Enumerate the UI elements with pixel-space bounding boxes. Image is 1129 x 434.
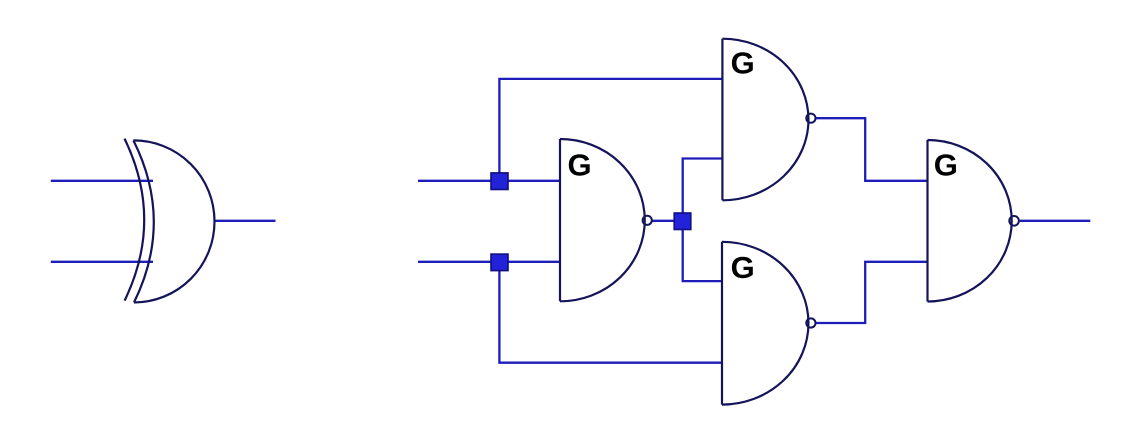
wire G2 output to NAND G4 input 1: [816, 118, 928, 181]
wire input B of XOR: [51, 261, 153, 263]
NAND gate G1 output bubble: [643, 216, 652, 225]
wire input A of XOR: [51, 180, 153, 182]
NAND gate G3 output bubble: [806, 318, 815, 327]
node C (junction square on G1 output): [674, 213, 691, 230]
node B (junction square on input 2): [491, 254, 508, 271]
wire G1 output to node C: [652, 220, 675, 222]
node A (junction square on input 1): [491, 173, 508, 190]
svg-text:G: G: [934, 147, 958, 182]
svg-text:G: G: [731, 46, 755, 81]
XOR gate U1 (left symbol): [125, 139, 215, 303]
NAND gate G4 body (right): [928, 140, 1012, 302]
wire node C down to NAND G3 input 1: [683, 221, 722, 281]
svg-text:G: G: [568, 148, 592, 183]
wire G3 output to NAND G4 input 2: [816, 262, 928, 323]
wire input 1 (top) to NAND G1: [418, 180, 560, 182]
wire output of G4: [1020, 220, 1091, 222]
NAND gate G1 body: [560, 139, 645, 301]
NAND gate G4 output bubble: [1009, 216, 1019, 226]
wire node C up to NAND G2 input 2: [683, 159, 723, 221]
wire from node A up and across to NAND G2 input 1: [499, 79, 722, 181]
NAND gate G3 body (bottom): [722, 242, 808, 405]
NAND gate G2 output bubble: [806, 114, 815, 123]
wire input 2 (bottom) to NAND G1: [418, 261, 560, 263]
NAND gate G2 body (top): [722, 39, 808, 201]
wire output of XOR: [215, 220, 276, 222]
wire from node B down and across to NAND G3 input 2: [499, 262, 722, 363]
svg-text:G: G: [731, 250, 755, 285]
